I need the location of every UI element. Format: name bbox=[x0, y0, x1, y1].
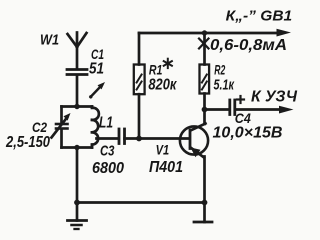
svg-text:C2: C2 bbox=[32, 119, 47, 135]
svg-text:W1: W1 bbox=[40, 32, 59, 49]
svg-text:0,6-0,8мА: 0,6-0,8мА bbox=[210, 37, 287, 54]
svg-text:C3: C3 bbox=[100, 142, 115, 159]
svg-text:10,0×15В: 10,0×15В bbox=[213, 124, 283, 141]
svg-text:5.1к: 5.1к bbox=[214, 76, 235, 93]
svg-text:R1: R1 bbox=[149, 62, 163, 78]
svg-text:L1: L1 bbox=[99, 115, 113, 132]
svg-text:R2: R2 bbox=[214, 62, 225, 78]
svg-text:V1: V1 bbox=[156, 143, 170, 158]
svg-text:2,5-150: 2,5-150 bbox=[5, 134, 50, 151]
svg-text:51: 51 bbox=[89, 61, 104, 78]
svg-text:6800: 6800 bbox=[92, 160, 124, 177]
svg-text:К„-” GB1: К„-” GB1 bbox=[226, 7, 293, 24]
svg-text:К УЗЧ: К УЗЧ bbox=[251, 89, 298, 106]
svg-text:820к: 820к bbox=[148, 77, 177, 94]
svg-text:П401: П401 bbox=[149, 159, 183, 176]
